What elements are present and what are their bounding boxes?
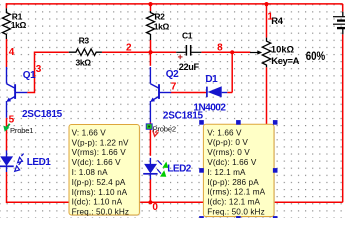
svg-text:1kΩ: 1kΩ bbox=[154, 21, 170, 31]
svg-text:Probe1: Probe1 bbox=[10, 126, 33, 135]
svg-text:R2: R2 bbox=[154, 11, 165, 21]
wire D1 anode up to net 8 bbox=[227, 92, 232, 94]
svg-text:I: 1.08 nA: I: 1.08 nA bbox=[72, 168, 108, 177]
selection handles of Probe2 info box bbox=[199, 120, 204, 125]
svg-text:10kΩ: 10kΩ bbox=[271, 43, 295, 54]
svg-text:2: 2 bbox=[126, 43, 132, 54]
svg-text:I(p-p): 286 pA: I(p-p): 286 pA bbox=[207, 178, 259, 187]
wire LED2 cathode to ground rail bbox=[149, 179, 151, 204]
junction node 1 at R4 top bbox=[264, 2, 268, 6]
junction node 8 at D1 branch bbox=[230, 50, 234, 54]
wire battery bottom to ground rail bbox=[342, 34, 344, 202]
svg-text:I(rms): 12.1 mA: I(rms): 12.1 mA bbox=[207, 188, 265, 197]
svg-text:3: 3 bbox=[36, 64, 42, 75]
junction node 1 at R2 top bbox=[148, 2, 152, 6]
svg-text:V(dc): 1.66 V: V(dc): 1.66 V bbox=[72, 158, 122, 167]
wire net 5 Q1 emitter to LED1 bbox=[6, 118, 8, 151]
svg-text:1N4002: 1N4002 bbox=[193, 102, 226, 113]
svg-text:V: 1.66 V: V: 1.66 V bbox=[207, 128, 242, 137]
wire bottom ground rail net 0 bbox=[7, 201, 343, 203]
svg-text:I(rms): 1.10 nA: I(rms): 1.10 nA bbox=[72, 188, 128, 197]
svg-text:I: 12.1 mA: I: 12.1 mA bbox=[207, 168, 246, 177]
svg-text:8: 8 bbox=[217, 42, 223, 53]
svg-text:LED2: LED2 bbox=[167, 164, 192, 175]
potentiometer R4 bbox=[262, 38, 270, 68]
capacitor C1 bbox=[176, 51, 186, 53]
svg-text:4: 4 bbox=[9, 47, 15, 58]
wire R1 top lead connection bbox=[5, 3, 7, 8]
svg-text:LED1: LED1 bbox=[27, 157, 52, 168]
battery V1 bbox=[342, 12, 344, 17]
svg-text:I(p-p): 52.4 pA: I(p-p): 52.4 pA bbox=[72, 178, 126, 187]
wire R2 top lead net 1 bbox=[150, 4, 152, 11]
wire net 7 Q2 base to D1 cathode bbox=[170, 92, 207, 94]
junction node 2 at R2 bottom bbox=[148, 50, 152, 54]
svg-text:5: 5 bbox=[9, 114, 15, 125]
LED LED1 emission arrows bbox=[21, 154, 23, 156]
resistor R3 bbox=[69, 49, 102, 56]
svg-text:V(rms): 0 V: V(rms): 0 V bbox=[207, 148, 250, 157]
svg-text:1: 1 bbox=[267, 11, 273, 22]
wire Q2 emitter to LED2 bbox=[149, 122, 151, 155]
probe Probe2 info box bbox=[204, 125, 275, 217]
probe Probe2 arrow bbox=[153, 130, 159, 136]
svg-text:60%: 60% bbox=[306, 50, 326, 63]
wire battery top lead net 1 bbox=[342, 4, 344, 12]
wire net 4 R1 to Q1 collector bbox=[6, 39, 8, 67]
svg-text:C1: C1 bbox=[182, 31, 193, 41]
diode D1 1N4002 bbox=[206, 87, 208, 98]
svg-text:V: 1.66 V: V: 1.66 V bbox=[72, 128, 107, 137]
svg-text:V(rms): 1.66 V: V(rms): 1.66 V bbox=[72, 148, 127, 157]
wire R4 top lead net 1 bbox=[266, 4, 268, 38]
svg-text:Freq.: 50.0 kHz: Freq.: 50.0 kHz bbox=[207, 208, 264, 217]
svg-text:I(dc): 1.10 nA: I(dc): 1.10 nA bbox=[72, 198, 123, 207]
svg-text:I(dc): 12.1 mA: I(dc): 12.1 mA bbox=[207, 198, 260, 207]
LED LED2 bbox=[149, 158, 151, 165]
wire net 8 C1 to R4 wiper bbox=[201, 51, 250, 53]
svg-text:3kΩ: 3kΩ bbox=[76, 58, 92, 68]
wire net 3 Q1 base to R3 bbox=[27, 52, 69, 92]
svg-text:Key=A: Key=A bbox=[271, 55, 299, 66]
transistor Q1 2SC1815 bbox=[6, 67, 8, 84]
svg-text:22uF: 22uF bbox=[179, 62, 200, 72]
junction node 0 at LED2 bottom bbox=[148, 200, 152, 204]
svg-text:Q2: Q2 bbox=[166, 69, 179, 80]
probe Probe1 info box bbox=[70, 126, 140, 217]
probe Probe1 arrow bbox=[7, 124, 10, 127]
svg-text:1kΩ: 1kΩ bbox=[11, 20, 27, 30]
svg-text:V(p-p): 0 V: V(p-p): 0 V bbox=[207, 138, 248, 147]
wire R2 bottom to net 2 bbox=[150, 40, 152, 52]
svg-text:R4: R4 bbox=[271, 15, 283, 26]
probe Probe2 marker bbox=[146, 124, 152, 130]
wire LED1 cathode to ground rail bbox=[6, 172, 8, 203]
wire net 2 R3 to C1 via R2 bottom bbox=[102, 51, 176, 53]
svg-text:V(dc): 1.66 V: V(dc): 1.66 V bbox=[207, 158, 257, 167]
svg-text:V(p-p): 1.22 nV: V(p-p): 1.22 nV bbox=[72, 138, 129, 147]
potentiometer R4 wiper arrow bbox=[250, 52, 258, 54]
svg-text:0: 0 bbox=[152, 202, 158, 213]
wire top power rail net 1 bbox=[6, 3, 343, 5]
svg-text:Q1: Q1 bbox=[23, 70, 36, 81]
LED LED1 bbox=[6, 150, 8, 157]
svg-text:7: 7 bbox=[171, 82, 177, 93]
transistor Q2 2SC1815 bbox=[149, 67, 151, 84]
svg-text:2SC1815: 2SC1815 bbox=[22, 109, 63, 120]
resistor R2 bbox=[147, 11, 155, 40]
resistor R1 bbox=[2, 8, 10, 39]
svg-text:D1: D1 bbox=[205, 74, 218, 85]
svg-text:Freq.: 50.0 kHz: Freq.: 50.0 kHz bbox=[72, 208, 129, 217]
capacitor C1 plus polarity mark bbox=[179, 55, 181, 60]
svg-text:R3: R3 bbox=[79, 36, 90, 46]
wire R4 bottom to ground rail bbox=[266, 67, 268, 202]
svg-text:Probe2: Probe2 bbox=[153, 124, 176, 133]
wire net 2 to Q2 collector bbox=[149, 52, 151, 66]
LED LED2 emission arrows bbox=[158, 160, 162, 164]
